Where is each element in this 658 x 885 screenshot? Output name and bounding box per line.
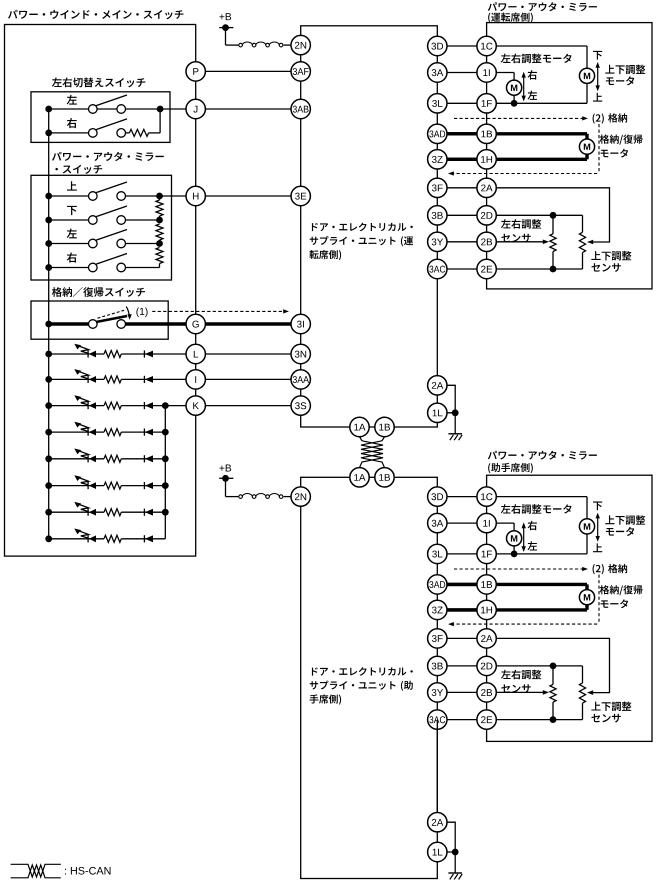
connector 2N (driver unit left) <box>291 35 310 54</box>
switch: mirror 左 contacts <box>89 239 98 248</box>
LED: illumination row6 <box>87 482 89 489</box>
arrow: up/down travel (passenger) <box>597 517 599 538</box>
LED: illumination L row <box>87 350 89 357</box>
label: door electrical supply unit (passenger) line2 <box>310 681 413 691</box>
label: up (passenger) <box>593 543 602 552</box>
wire: retract motor to 1H thick (driver) <box>585 154 588 159</box>
wire: 1I to left/right motor (driver) <box>487 72 514 74</box>
wire: 3AD to 1B (driver) <box>437 132 486 135</box>
connector 3E (driver unit left) <box>291 186 310 205</box>
junction dot: LED feeder tap row4 <box>162 429 169 436</box>
junction dot: bus tap K row <box>45 402 52 409</box>
wire: 3Y to 2B (driver) <box>437 241 486 243</box>
label: left/right adjust sensor line1 (driver) <box>501 219 541 229</box>
wire: illumination I row <box>49 378 104 380</box>
LED: illumination row5 <box>87 455 89 462</box>
resistor: mirror ladder R2 <box>156 224 163 240</box>
box: power outer mirror (passenger side) <box>487 475 652 741</box>
motor M1: up/down adjust (passenger) <box>579 519 594 534</box>
connector 3S (driver unit left) <box>291 396 310 415</box>
label: up/down adjust motor line1 (passenger) <box>605 515 645 525</box>
wire: +B stub (passenger) <box>219 477 233 479</box>
connector 1B (passenger mirror) <box>477 575 496 594</box>
connector I (main switch) <box>186 370 205 389</box>
wire: dashed return reference vertical (driver) <box>598 124 600 174</box>
connector 3AC (passenger unit right) <box>428 710 447 729</box>
wire: 1B thick to retract motor (driver) <box>447 132 587 135</box>
connector 1L (driver unit bottom) <box>428 403 447 422</box>
connector 3D (passenger unit right) <box>428 487 447 506</box>
connector 1C (driver mirror) <box>477 36 496 55</box>
resistor: mirror ladder R1 <box>156 200 163 216</box>
label: up/down adjust motor line2 (driver) <box>606 76 634 85</box>
box: power outer mirror switch <box>31 175 172 280</box>
connector K (main switch) <box>186 396 205 415</box>
connector 3AF (driver unit left) <box>291 62 310 81</box>
wire: 1L to ground (driver) <box>437 412 455 414</box>
junction dot: resistor ladder mid1 <box>156 217 163 224</box>
junction dot: mirror switch bus tap (右) <box>45 264 52 271</box>
wire: J row (selector common to 3AB) <box>49 108 186 110</box>
connector J (main switch) <box>186 99 205 118</box>
switch blade: selector 'left' <box>96 95 127 106</box>
junction dot: LED feeder tap row6 <box>162 482 169 489</box>
switch blade: mirror 下 <box>96 206 127 217</box>
connector G (main switch) <box>186 314 205 333</box>
label: up/down adjust motor line1 (driver) <box>605 65 645 75</box>
wire: 3F to 2A (passenger) <box>437 637 486 639</box>
box: power outer mirror (driver side) <box>487 23 652 289</box>
connector 3A (driver unit right) <box>428 63 447 82</box>
connector 3A (passenger unit right) <box>428 513 447 532</box>
label: (2) retract (driver) <box>593 113 628 123</box>
switch blade: selector 'right' <box>96 119 127 130</box>
wire: 1L to ground (passenger) <box>437 851 455 853</box>
label: +B (passenger unit supply) <box>219 465 231 472</box>
junction dot: bus tap L row <box>45 351 52 358</box>
label: left (selector) <box>67 95 77 105</box>
resistor: left/right adjust sensor (driver) <box>552 215 554 234</box>
wire: 2A to up/down sensor (driver) <box>487 188 610 242</box>
connector P (main switch) <box>186 62 205 81</box>
label: door electrical supply unit (driver) line2 <box>310 236 413 246</box>
label: +B (driver unit supply) <box>219 13 231 20</box>
junction dot: bus tap row7 <box>45 509 52 516</box>
wire: 2E to sensors (passenger) <box>487 719 583 721</box>
wire: 1I to left/right motor (passenger) <box>487 522 514 524</box>
wire: 2B wiper arrow (passenger) <box>487 691 546 693</box>
label: up/down adjust sensor line2 (driver) <box>591 263 620 272</box>
resistor: up/down adjust sensor (driver) <box>582 215 584 232</box>
coil: supply wire coil to 2N (driver) <box>239 43 243 47</box>
switch blade: mirror 右 <box>96 254 127 265</box>
label: left (driver) <box>528 91 538 100</box>
wire: 1C to up/down motor (driver) <box>487 45 587 47</box>
label: (1) <box>136 308 147 318</box>
wire: 2A to up/down sensor (passenger) <box>487 638 610 692</box>
arrow: left/right travel (passenger) <box>523 526 525 548</box>
label: left/right adjust sensor line2 (passenger) <box>501 684 530 693</box>
motor M1: up/down adjust (driver) <box>579 68 594 83</box>
connector 3Z (driver unit right) <box>428 150 447 169</box>
junction dot: 2E/left sensor (passenger) <box>550 716 557 723</box>
box: door electrical supply unit (passenger side) <box>301 477 438 878</box>
label: retract/return motor line2 (passenger) <box>601 599 629 608</box>
resistor: illumination row4 <box>104 429 121 436</box>
connector 1H (driver mirror) <box>477 150 496 169</box>
resistor: up/down adjust sensor (passenger) <box>582 666 584 683</box>
connector 1C (passenger mirror) <box>477 487 496 506</box>
label: up/down adjust sensor line1 (passenger) <box>591 702 631 712</box>
wire: 3AC to 2E (driver) <box>437 268 486 270</box>
resistor: selector right row <box>129 129 148 136</box>
label: retract/return motor line2 (driver) <box>601 149 629 158</box>
label: left/right adjust sensor line1 (passenger) <box>501 670 541 680</box>
arrow: left/right travel (driver) <box>523 76 525 98</box>
coil: supply wire coil to 2N (passenger) <box>239 495 243 499</box>
junction dot: 1F / left-right motor (driver) <box>511 100 518 107</box>
label: right (driver) <box>528 70 537 80</box>
wire: +B stub (driver) <box>219 27 233 29</box>
connector 3I (driver unit left) <box>291 314 310 333</box>
connector 3AA (driver unit left) <box>291 370 310 389</box>
connector 3AD (driver unit right) <box>428 124 447 143</box>
junction dot: 2E/left sensor (driver) <box>550 266 557 273</box>
switch: mirror 上 contacts <box>89 192 98 201</box>
switch blade: mirror 左 <box>96 230 127 241</box>
switch blade: mirror 上 <box>96 182 127 193</box>
wire: I to 3AA <box>205 378 300 380</box>
label: door electrical supply unit (driver) line3 <box>309 250 341 260</box>
junction dot: mirror switch bus tap (下) <box>45 217 52 224</box>
wire: 3B to 2D (passenger) <box>437 665 486 667</box>
wire: illumination row4 <box>49 431 104 433</box>
box: power window main switch enclosure <box>5 25 196 557</box>
wire: 2D to sensors (driver) <box>487 214 583 216</box>
wire: H row (mirror switch to 3E) <box>160 195 187 197</box>
wire: K to 3S <box>205 405 300 407</box>
wire: illumination row7 <box>49 511 104 513</box>
wire: 3B to 2D (driver) <box>437 214 486 216</box>
connector 3Y (driver unit right) <box>428 232 447 251</box>
label: retract/return switch title <box>52 287 145 297</box>
wire: dashed return reference horizontal (driver) <box>451 173 599 175</box>
connector 3N (driver unit left) <box>291 344 310 363</box>
motor M3: retract/return (driver) <box>579 139 594 154</box>
wire: coil to connector 2N (driver) <box>284 44 291 46</box>
wire: 3Y to 2B (passenger) <box>437 691 486 693</box>
junction dot: 2D/left sensor (driver) <box>550 212 557 219</box>
switch blade alt position (dashed) <box>98 310 125 318</box>
junction dot: selector right-row resistor junction <box>157 106 164 113</box>
label: right (passenger) <box>528 521 537 531</box>
label: power outer mirror switch title line2 <box>55 165 102 174</box>
wire: dashed reference (1) to unit <box>152 310 285 312</box>
junction dot: resistor ladder mid2 <box>156 240 163 247</box>
label: 右 (mirror switch) <box>67 253 77 263</box>
wire: dashed return reference horizontal (passenger) <box>451 623 599 625</box>
connector 3AC (driver unit right) <box>428 259 447 278</box>
label: up/down adjust motor line2 (passenger) <box>606 527 634 536</box>
wire: mirror switch row 右 <box>49 267 89 269</box>
junction dot: bus tap row5 <box>45 455 52 462</box>
ground (driver unit) <box>448 433 462 435</box>
legend: twisted pair symbol <box>11 864 61 877</box>
junction dot: +B terminal (driver) <box>222 24 229 31</box>
label: door electrical supply unit (driver) line1 <box>312 223 413 232</box>
wire: mirror switch row 上 <box>49 195 89 197</box>
connector 3L (driver unit right) <box>428 94 447 113</box>
junction dot: 1F / left-right motor (passenger) <box>511 551 518 558</box>
wire: retract switch row (thick, bus to G to 3I) <box>49 322 89 325</box>
junction dot: bus tap I row <box>45 376 52 383</box>
connector 2E (passenger mirror) <box>477 710 496 729</box>
switch: retract/return contacts <box>89 320 98 329</box>
resistor: illumination I row <box>104 376 121 383</box>
junction dot: mirror switch bus tap (上) <box>45 193 52 200</box>
LED: illumination row7 <box>87 509 89 516</box>
label: right (selector) <box>67 118 77 128</box>
connector 3B (driver unit right) <box>428 206 447 225</box>
wire: L to 3N <box>205 353 300 355</box>
wire: 3AC down to 2A (passenger) <box>436 720 438 813</box>
connector 3D (driver unit right) <box>428 36 447 55</box>
wire: dashed (2) retract reference (passenger) <box>454 568 585 570</box>
wire: 3L to 1F (driver) <box>437 102 486 104</box>
motor M2: left/right adjust (driver) <box>506 80 521 95</box>
wire: up/down motor to 1F line (driver) <box>586 83 588 103</box>
connector L (main switch) <box>186 344 205 363</box>
wire: illumination row8 <box>49 538 104 540</box>
resistor: left/right adjust sensor (passenger) <box>552 666 554 685</box>
connector 1I (passenger mirror) <box>477 513 496 532</box>
connector 3AB (driver unit left) <box>291 99 310 118</box>
connector 1L (passenger unit bottom) <box>428 842 447 861</box>
connector 1A (driver unit) <box>350 417 369 436</box>
wire: selector 'right' row <box>49 132 89 134</box>
connector 2A (driver unit bottom) <box>428 376 447 395</box>
label: power outer mirror title (driver) line2 <box>488 13 533 23</box>
connector 3Y (passenger unit right) <box>428 683 447 702</box>
connector 3L (passenger unit right) <box>428 544 447 563</box>
wire: left/right motor to 1F junction (passenger) <box>513 546 515 554</box>
junction dot: ground node (passenger) <box>452 849 459 856</box>
LED: illumination row8 <box>87 535 89 542</box>
wire: 3AD to 1B (passenger) <box>437 583 486 586</box>
label: left/right adjust sensor line2 (driver) <box>501 234 530 243</box>
label: retract/return motor line1 (passenger) <box>600 585 643 595</box>
label: up/down adjust sensor line1 (driver) <box>591 251 631 261</box>
wire: dashed return reference vertical (passenger) <box>598 575 600 625</box>
wire: up/down motor to 1F line (passenger) <box>586 534 588 554</box>
connector 2B (driver mirror) <box>477 232 496 251</box>
LED: illumination K row <box>87 402 89 409</box>
label: 左 (mirror switch) <box>67 229 77 239</box>
box: retract/return switch <box>31 301 168 339</box>
label: down (driver) <box>593 51 602 60</box>
connector 1F (driver mirror) <box>477 94 496 113</box>
motor M3: retract/return (passenger) <box>579 590 594 605</box>
connector H (main switch) <box>186 186 205 205</box>
connector 3B (passenger unit right) <box>428 656 447 675</box>
label: down (passenger) <box>593 501 602 510</box>
wire: illumination row5 <box>49 458 104 460</box>
wire: 2B wiper arrow (driver) <box>487 241 546 243</box>
connector 2A (passenger mirror) <box>477 629 496 648</box>
wire: 3A to 1I (passenger) <box>437 522 486 524</box>
switch: mirror 右 contacts <box>89 263 98 272</box>
label: retract/return motor line1 (driver) <box>600 134 643 144</box>
arrow: up/down travel (driver) <box>597 66 599 87</box>
junction dot: bus tap row6 <box>45 482 52 489</box>
box: left/right selector switch <box>31 92 170 143</box>
wire: illumination K row <box>49 405 104 407</box>
wire: 2A ground loop (passenger) <box>437 822 455 852</box>
resistor: illumination K row <box>104 402 121 409</box>
connector 2D (passenger mirror) <box>477 656 496 675</box>
wire: mirror switch row 下 <box>49 219 89 221</box>
resistor: mirror ladder R3 <box>156 248 163 264</box>
switch: selector 'left' contacts <box>89 105 98 114</box>
junction dot: LED feeder tap row7 <box>162 509 169 516</box>
connector 2A (driver mirror) <box>477 178 496 197</box>
LED: illumination row4 <box>87 429 89 436</box>
connector 3AD (passenger unit right) <box>428 575 447 594</box>
wire: mirror switch row 左 <box>49 243 89 245</box>
wire: 3D to 1C (passenger) <box>437 496 486 498</box>
label: up/down adjust sensor line2 (passenger) <box>591 714 620 723</box>
junction dot: selector switch bus tap (left row) <box>45 106 52 113</box>
junction dot: LED feeder tap row5 <box>162 455 169 462</box>
resistor: illumination row5 <box>104 455 121 462</box>
junction dot: resistor ladder top (H row) <box>156 193 163 200</box>
connector 2E (driver mirror) <box>477 259 496 278</box>
wire: coil to connector 2N (passenger) <box>284 496 291 498</box>
wire: 3Z to 1H (driver) <box>437 158 486 161</box>
connector 3Z (passenger unit right) <box>428 600 447 619</box>
wire: 3D to 1C (driver) <box>437 45 486 47</box>
switch: selector 'right' contacts <box>89 129 98 138</box>
wire: 1F to motors junction (passenger) <box>487 553 587 555</box>
wire: 1F to motors junction (driver) <box>487 102 587 104</box>
label: 下 (mirror switch) <box>67 206 77 215</box>
connector 1B (passenger unit) <box>375 468 394 487</box>
label: door electrical supply unit (passenger) line1 <box>312 667 413 676</box>
wire: 3F to 2A (driver) <box>437 187 486 189</box>
wire: illumination L row <box>49 353 104 355</box>
wire: LED feeder vertical <box>164 406 166 539</box>
label: door electrical supply unit (passenger) line3 <box>310 694 342 704</box>
junction dot: selector bus tap (right row) <box>45 130 52 137</box>
resistor: illumination row6 <box>104 482 121 489</box>
connector 3F (driver unit right) <box>428 178 447 197</box>
junction dot: ground node (driver) <box>452 409 459 416</box>
label: power outer mirror switch title line1 <box>52 152 164 161</box>
label: left/right adjust motor (driver) <box>501 54 572 64</box>
wire: switch common bus (vertical) <box>48 109 50 539</box>
connector 2A (passenger unit bottom) <box>428 813 447 832</box>
junction dot: +B terminal (passenger) <box>222 475 229 482</box>
wire: 3A to 1I (driver) <box>437 72 486 74</box>
label: power outer mirror title (driver) <box>488 2 597 11</box>
label: left (passenger) <box>528 541 538 550</box>
resistor: illumination L row <box>104 351 121 358</box>
motor M2: left/right adjust (passenger) <box>506 531 521 546</box>
junction dot: retract switch bus tap <box>45 321 52 328</box>
wire: retract motor to 1H thick (passenger) <box>585 605 588 610</box>
junction dot: 2D/left sensor (passenger) <box>550 663 557 670</box>
wire: 3L to 1F (passenger) <box>437 553 486 555</box>
box: door electrical supply unit (driver side) <box>301 26 438 427</box>
label: 上 (mirror switch) <box>67 181 77 190</box>
junction dot: bus tap row4 <box>45 429 52 436</box>
connector 2D (driver mirror) <box>477 206 496 225</box>
connector 1F (passenger mirror) <box>477 544 496 563</box>
wire: 3Z to 1H (passenger) <box>437 608 486 611</box>
junction dot: mirror switch bus tap (左) <box>45 240 52 247</box>
wire: 1C to up/down motor (passenger) <box>487 496 587 498</box>
connector 2B (passenger mirror) <box>477 683 496 702</box>
wire: 2A ground loop (driver) <box>437 385 455 413</box>
connector 1B (driver unit) <box>375 417 394 436</box>
label: (2) retract (passenger) <box>593 564 628 574</box>
switch: mirror 下 contacts <box>89 216 98 225</box>
wire: twisted pair HS-CAN <box>360 437 363 441</box>
wire: left/right motor to 1F junction (driver) <box>513 95 515 103</box>
connector 1I (driver mirror) <box>477 63 496 82</box>
wire: dashed (2) retract reference (driver) <box>454 117 585 119</box>
arrow: blade motion (1) <box>126 307 129 317</box>
switch blade: retract/return (thick) <box>96 316 127 322</box>
wire: P to 3AF <box>196 70 301 72</box>
resistor: illumination row7 <box>104 509 121 516</box>
label: left/right adjust motor (passenger) <box>501 504 572 514</box>
label: power outer mirror title (passenger) line2 <box>488 463 533 473</box>
wire: illumination row6 <box>49 485 104 487</box>
connector 1A (passenger unit) <box>350 468 369 487</box>
connector 2N (passenger unit) <box>291 487 310 506</box>
wire: 2E to sensors (driver) <box>487 268 583 270</box>
resistor: illumination row8 <box>104 535 121 542</box>
label: up (driver) <box>593 93 602 102</box>
legend: HS-CAN text <box>65 867 111 875</box>
label: power window main switch title <box>8 10 184 20</box>
wire: 3AC to 2E (passenger) <box>437 719 486 721</box>
ground (passenger unit) <box>448 872 462 874</box>
wire: 2D to sensors (passenger) <box>487 665 583 667</box>
wire: 1B thick to retract motor (passenger) <box>447 583 587 586</box>
junction dot: bus tap row8 <box>45 535 52 542</box>
label: power outer mirror title (passenger) <box>488 451 597 460</box>
connector 1B (driver mirror) <box>477 124 496 143</box>
LED: illumination I row <box>87 376 89 383</box>
label: left/right selector switch title <box>52 77 145 87</box>
connector 3F (passenger unit right) <box>428 629 447 648</box>
connector 1H (passenger mirror) <box>477 600 496 619</box>
junction dot: LED feeder tap row3 <box>162 402 169 409</box>
